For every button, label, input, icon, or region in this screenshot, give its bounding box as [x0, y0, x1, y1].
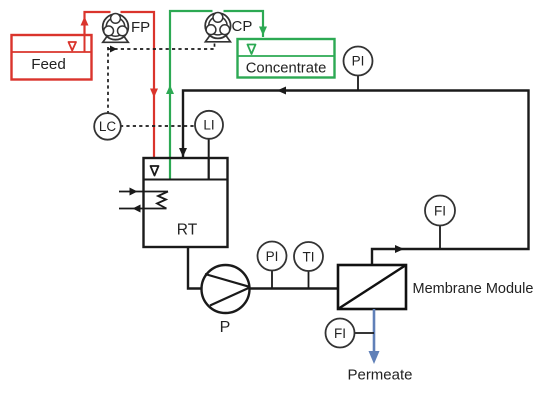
wire: RT outlet to pump P — [188, 247, 202, 289]
svg-text:P: P — [220, 319, 231, 336]
svg-text:Concentrate: Concentrate — [246, 61, 327, 77]
svg-text:FP: FP — [131, 19, 150, 36]
wire: permeate line (blue) — [373, 309, 376, 352]
wire: red feed line from tank over pump FP down to tank RT — [85, 12, 155, 158]
concentrate tank — [238, 39, 335, 78]
wire: green concentrate line from RT over pump CP to concentrate tank — [170, 11, 263, 180]
instrument FI (permeate) — [326, 319, 375, 348]
heat exchanger coil in tank RT — [119, 192, 168, 209]
membrane module — [338, 265, 406, 309]
wire: level dip tube from LI into tank RT — [208, 139, 210, 180]
instrument TI (pump outlet) — [294, 242, 323, 289]
svg-text:LI: LI — [203, 118, 214, 133]
wire: dashed signal LC to LI — [120, 125, 195, 127]
arrow down permeate — [369, 351, 380, 364]
svg-text:Feed: Feed — [31, 56, 66, 73]
svg-text:CP: CP — [232, 18, 253, 35]
feed tank — [12, 35, 92, 80]
wire: dashed signal FP to CP — [108, 44, 215, 50]
svg-text:FI: FI — [434, 203, 446, 218]
arrow down on green line — [259, 27, 267, 36]
arrow left on retentate top line — [277, 87, 286, 95]
wire: dashed signal FP to LC — [107, 47, 109, 114]
wire: black retentate recycle loop (membrane top - right side - top line - down into RT) — [183, 91, 529, 266]
instrument PI (pump outlet) — [258, 242, 287, 289]
svg-text:FI: FI — [334, 326, 346, 341]
svg-text:LC: LC — [99, 119, 117, 134]
tank RT — [144, 158, 228, 247]
svg-text:Membrane Module: Membrane Module — [413, 281, 534, 297]
instrument LI — [195, 111, 223, 139]
arrow down into tank RT — [179, 148, 187, 157]
pump CP — [205, 13, 230, 42]
pump FP — [103, 14, 129, 43]
svg-text:TI: TI — [303, 249, 315, 264]
arrow out of heat exchanger — [133, 205, 141, 213]
instrument PI (top, on retentate line) — [344, 47, 373, 91]
instrument FI (retentate) — [425, 196, 455, 250]
arrow right on retentate bottom line — [395, 245, 404, 253]
arrowhead on dashed signal line — [110, 46, 117, 53]
pump P — [202, 265, 250, 313]
arrow in to heat exchanger — [130, 188, 138, 196]
svg-text:RT: RT — [177, 222, 198, 239]
svg-text:Permeate: Permeate — [347, 367, 412, 384]
svg-text:PI: PI — [266, 249, 279, 264]
arrow up on green line — [166, 85, 174, 94]
arrow up on red feed line — [81, 17, 89, 26]
arrow down on red feed line — [150, 89, 158, 98]
wire: pump P outlet to membrane module — [250, 287, 339, 289]
instrument LC — [94, 113, 121, 140]
svg-text:PI: PI — [352, 54, 365, 69]
